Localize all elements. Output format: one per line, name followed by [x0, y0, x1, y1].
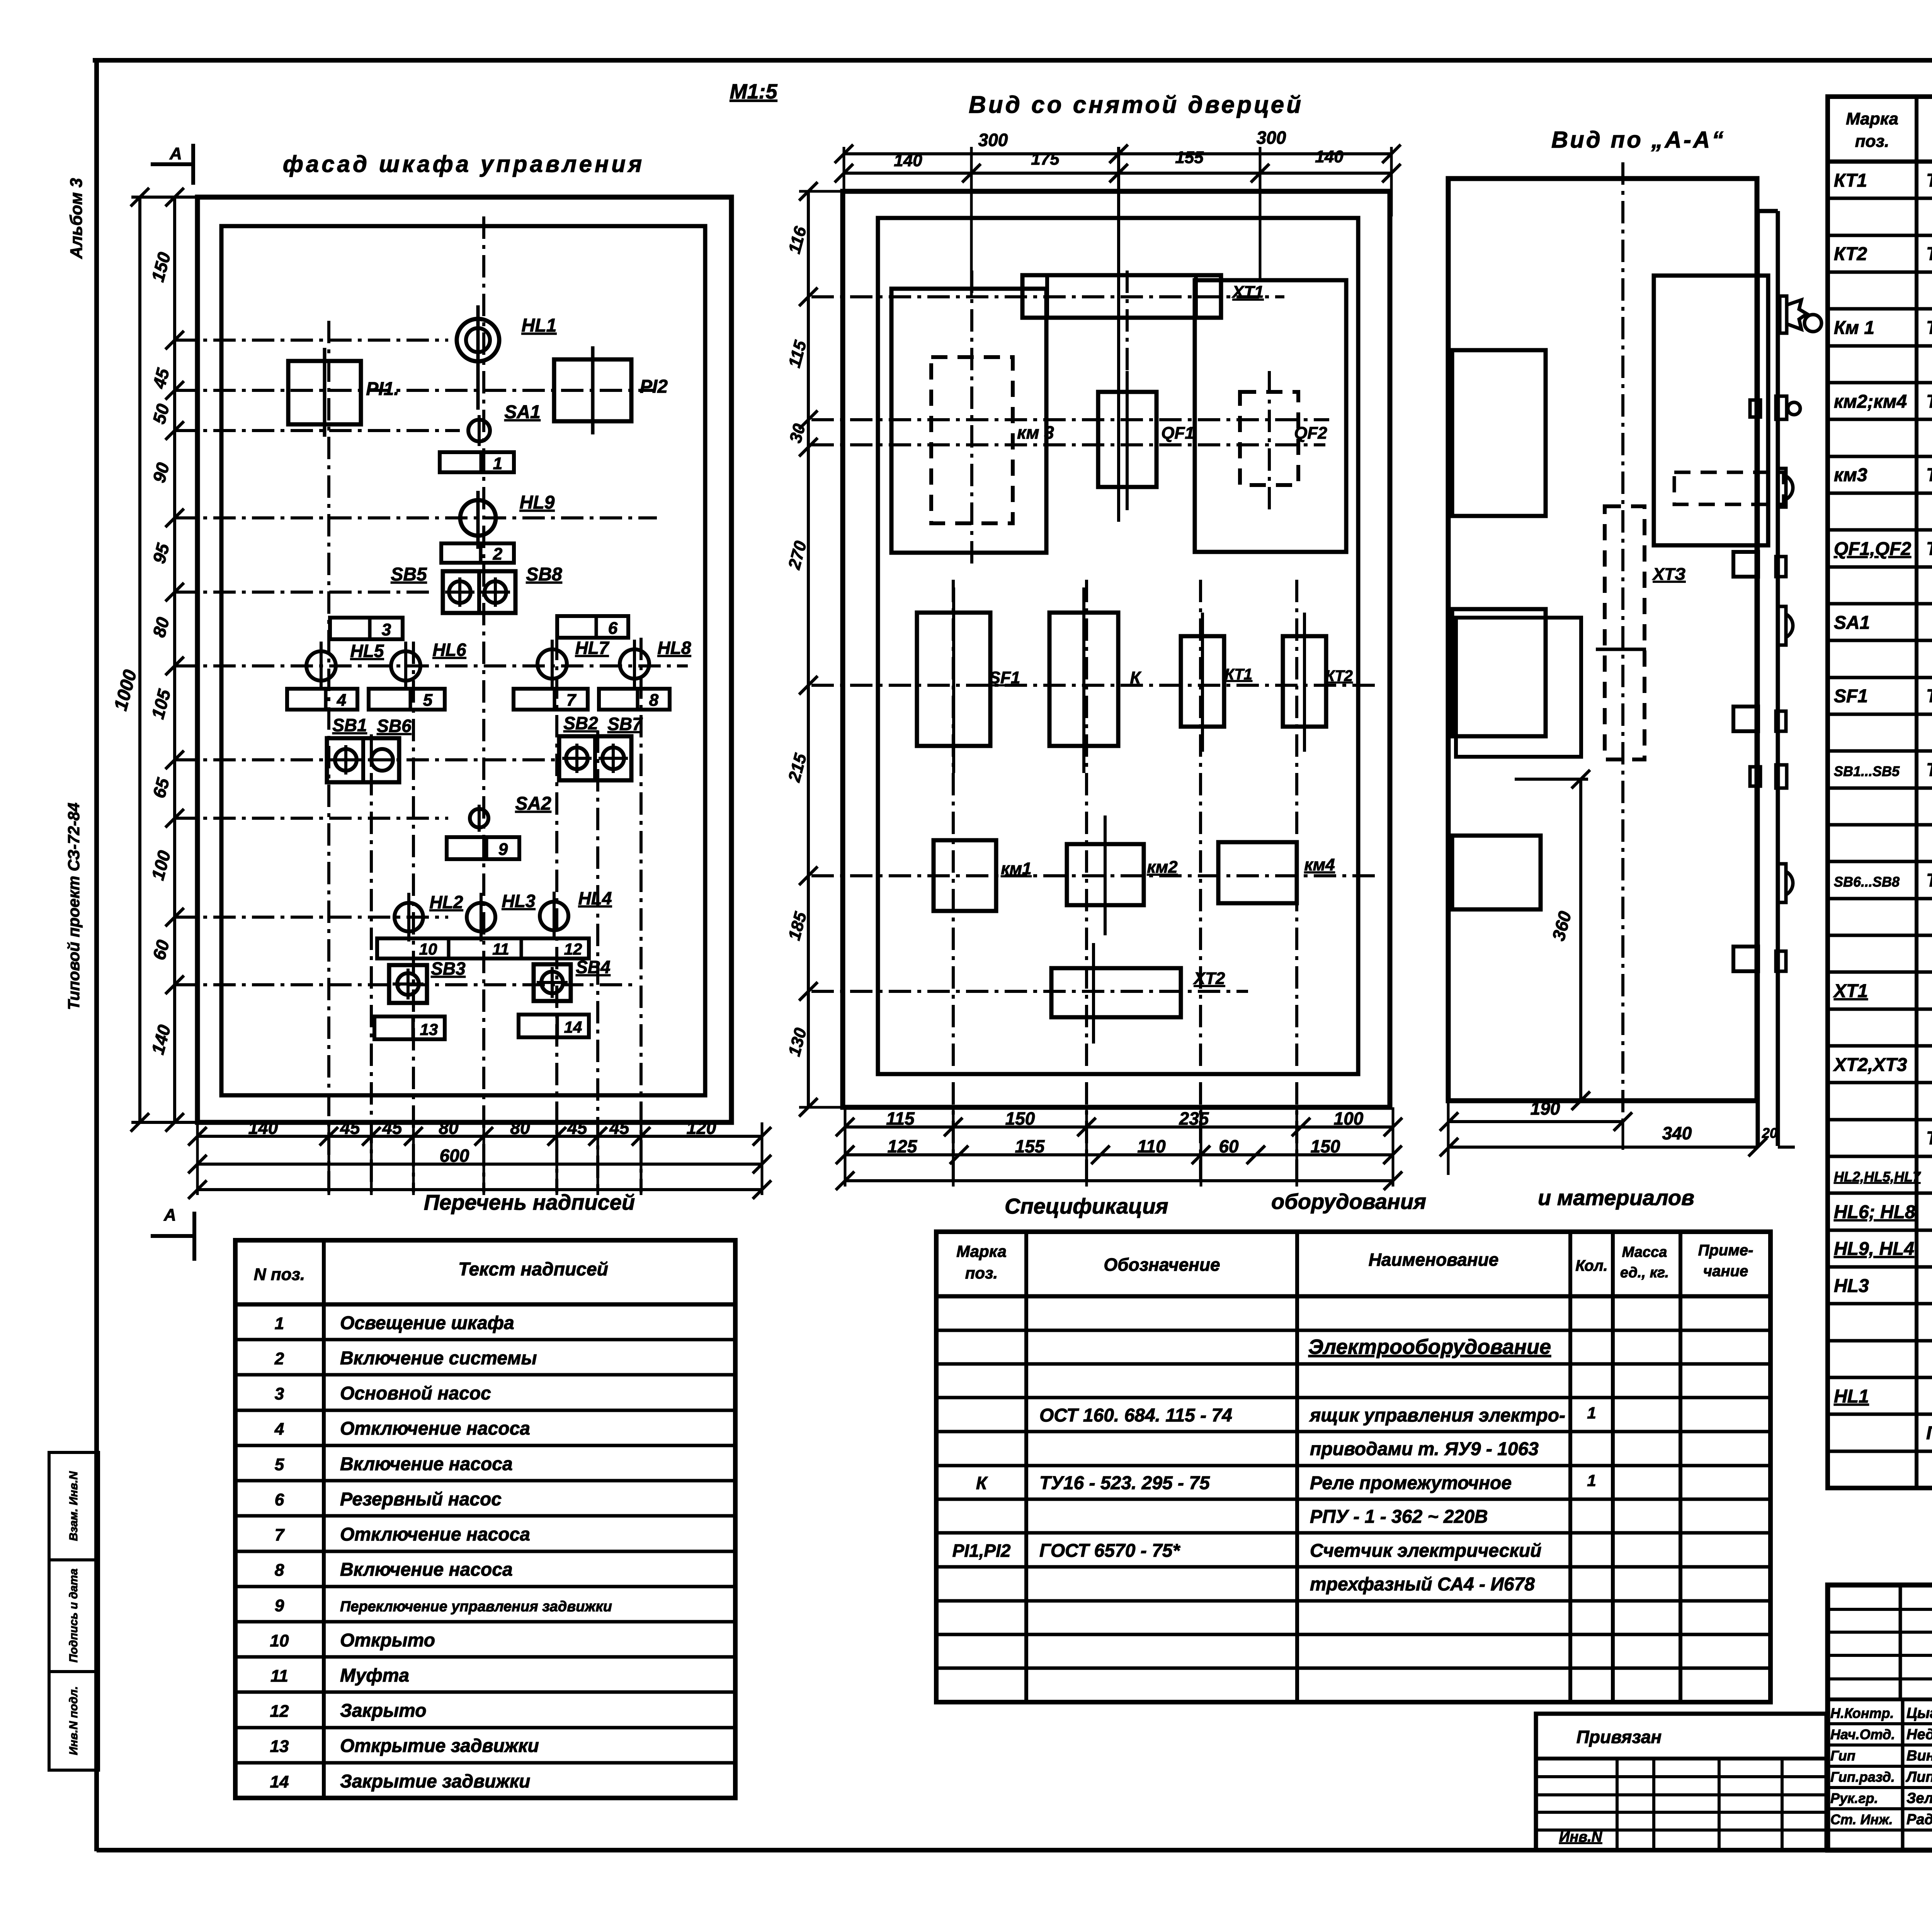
svg-text:Рук.гр.: Рук.гр. [1830, 1790, 1878, 1806]
svg-text:Км 1: Км 1 [1834, 318, 1874, 338]
svg-text:SA2: SA2 [515, 793, 551, 814]
middle center line row4 [811, 990, 1248, 993]
breaker SF1 [917, 613, 990, 746]
svg-text:Виноградов: Виноградов [1906, 1748, 1932, 1764]
contactor KM1 [934, 840, 996, 911]
nameplate 13 [374, 1016, 445, 1039]
svg-text:8: 8 [649, 691, 659, 710]
lamp HL2 [395, 903, 423, 931]
middle panel outline [878, 218, 1358, 1074]
svg-text:Переключение управления задвиж: Переключение управления задвижки [340, 1599, 612, 1615]
middle bottom dim row 3 [845, 1179, 1393, 1182]
svg-text:ТУ16 - 522. 139 - 78: ТУ16 - 522. 139 - 78 [1926, 686, 1932, 707]
buttons SB1 SB6 block [327, 738, 399, 782]
svg-text:А: А [163, 1205, 176, 1224]
title block [1828, 1585, 1932, 1850]
svg-text:14: 14 [564, 1018, 582, 1036]
svg-text:поз.: поз. [1855, 132, 1889, 151]
time relay KT2 [1283, 636, 1326, 727]
svg-text:155: 155 [1015, 1136, 1045, 1156]
contactor KM3 panel [891, 289, 1046, 553]
nameplate 3 [330, 618, 403, 639]
facade vertical dim chain [173, 197, 176, 1122]
svg-text:ХТЗ: ХТЗ [1652, 565, 1686, 584]
svg-text:ящик управления электро-: ящик управления электро- [1309, 1405, 1565, 1426]
svg-text:Типовой проект СЗ-72-84: Типовой проект СЗ-72-84 [65, 803, 83, 1010]
svg-text:7: 7 [566, 691, 577, 710]
svg-text:Включение насоса: Включение насоса [340, 1454, 513, 1474]
svg-text:ТУ16. - 526. 437 - 78: ТУ16. - 526. 437 - 78 [1926, 392, 1932, 412]
svg-text:155: 155 [1175, 148, 1204, 167]
svg-text:80: 80 [510, 1118, 530, 1138]
button SB3 [389, 965, 427, 1003]
lamp HL4 [540, 902, 568, 930]
svg-text:HL6; HL8: HL6; HL8 [1834, 1202, 1915, 1222]
svg-text:км4: км4 [1304, 855, 1335, 874]
svg-text:110: 110 [1137, 1136, 1166, 1156]
lamp HL7 [537, 649, 567, 679]
svg-text:150: 150 [1005, 1108, 1035, 1129]
svg-text:А: А [169, 144, 182, 163]
svg-text:ТУ16 - 523. 295 - 75: ТУ16 - 523. 295 - 75 [1039, 1473, 1210, 1493]
margin boxes inv/podp [49, 1452, 99, 1770]
terminal block XT2 [1051, 968, 1181, 1017]
svg-text:HL3: HL3 [502, 891, 536, 911]
A-A hinge D 2 [1778, 606, 1786, 645]
svg-text:КТ2: КТ2 [1325, 667, 1353, 684]
nameplate 2 [441, 543, 514, 563]
svg-text:Альбом 3: Альбом 3 [67, 178, 86, 259]
middle bottom dim row 1 [845, 1125, 1393, 1129]
svg-text:HL8: HL8 [658, 638, 691, 658]
svg-text:12: 12 [270, 1702, 289, 1721]
lamp HL8 [620, 649, 649, 679]
facade bottom dim row 1 [197, 1135, 762, 1138]
svg-text:HL3: HL3 [1834, 1276, 1869, 1296]
svg-text:4: 4 [337, 691, 346, 710]
svg-text:приводами т. ЯУ9 - 1063: приводами т. ЯУ9 - 1063 [1310, 1439, 1539, 1459]
svg-text:N поз.: N поз. [254, 1265, 305, 1284]
svg-text:150: 150 [1311, 1136, 1340, 1156]
svg-text:HL6: HL6 [433, 640, 466, 660]
facade horizontal center lines [175, 339, 448, 342]
A-A latch sq 3 [1733, 947, 1758, 971]
svg-text:ХТ1: ХТ1 [1231, 283, 1264, 301]
svg-text:2: 2 [493, 545, 503, 564]
svg-text:Привязан: Привязан [1577, 1727, 1662, 1747]
meter PI2 [554, 359, 631, 421]
svg-text:Гип.разд.: Гип.разд. [1830, 1769, 1895, 1785]
svg-text:9: 9 [498, 840, 508, 859]
svg-text:140: 140 [894, 151, 922, 170]
svg-text:1: 1 [1587, 1471, 1596, 1490]
nameplate 1 [440, 452, 514, 472]
nameplate 7 [514, 689, 588, 710]
svg-text:Счетчик электрический: Счетчик электрический [1310, 1541, 1541, 1561]
svg-text:SB5: SB5 [391, 564, 427, 585]
buttons SB2 SB7 block [559, 736, 631, 780]
svg-text:190: 190 [1531, 1098, 1560, 1119]
svg-text:SB8: SB8 [526, 564, 562, 585]
middle left dim chain [807, 191, 810, 1107]
svg-text:14: 14 [270, 1772, 289, 1791]
svg-text:140: 140 [1315, 147, 1344, 166]
time relay KT1 [1181, 636, 1224, 727]
svg-text:Основной насос: Основной насос [340, 1383, 491, 1404]
button SB4 [534, 964, 571, 1001]
nameplate strip 10 11 12 [377, 938, 589, 958]
svg-text:ТУ16 - 526.437 - 78: ТУ16 - 526.437 - 78 [1926, 318, 1932, 338]
A-A center line [1621, 162, 1624, 1121]
svg-text:Инв.N подл.: Инв.N подл. [67, 1686, 80, 1755]
svg-text:HL2,HL5,HL7: HL2,HL5,HL7 [1834, 1169, 1921, 1185]
svg-text:Открыто: Открыто [340, 1630, 435, 1651]
svg-text:6: 6 [275, 1490, 284, 1509]
svg-text:300: 300 [978, 130, 1008, 150]
svg-text:ХТ2,ХТ3: ХТ2,ХТ3 [1833, 1055, 1907, 1075]
frame top [93, 58, 1932, 63]
signature rows [1828, 1722, 1932, 1725]
svg-text:100: 100 [1334, 1108, 1364, 1129]
breaker QF1 [1098, 392, 1156, 487]
A-A dim 360 [1579, 779, 1582, 1101]
contactor KM2 [1067, 844, 1144, 905]
svg-text:Включение системы: Включение системы [340, 1348, 537, 1369]
svg-text:SF1: SF1 [1834, 686, 1868, 707]
svg-text:Обозначение: Обозначение [1104, 1255, 1220, 1275]
svg-text:5: 5 [275, 1455, 284, 1474]
middle top extension lines [843, 147, 845, 216]
svg-text:140: 140 [248, 1118, 278, 1138]
svg-text:3: 3 [382, 620, 391, 639]
svg-text:Недошивин: Недошивин [1906, 1726, 1932, 1743]
svg-text:3: 3 [275, 1384, 284, 1403]
svg-text:Цыганова: Цыганова [1906, 1705, 1932, 1721]
svg-text:10: 10 [419, 940, 437, 958]
svg-text:Зельманов: Зельманов [1906, 1790, 1932, 1806]
svg-text:175: 175 [1031, 150, 1060, 169]
lamp HL5 [306, 651, 336, 681]
svg-text:SB4: SB4 [576, 957, 610, 977]
svg-text:Отключение насоса: Отключение насоса [340, 1418, 530, 1439]
svg-text:1: 1 [493, 454, 502, 473]
svg-text:45: 45 [567, 1118, 588, 1138]
svg-text:HL7: HL7 [575, 638, 610, 658]
svg-text:SB6...SB8: SB6...SB8 [1834, 874, 1900, 890]
facade vertical dim 1000 [138, 197, 141, 1122]
svg-text:300: 300 [1257, 128, 1286, 148]
svg-text:оборудования: оборудования [1271, 1189, 1426, 1214]
middle center line 30 upper [811, 418, 1329, 421]
linked project sub-table (Привязан) [1536, 1714, 1827, 1850]
svg-text:Текст надписей: Текст надписей [458, 1259, 608, 1280]
svg-text:ОСТ 160. 684. 115 - 74: ОСТ 160. 684. 115 - 74 [1039, 1405, 1232, 1426]
A-A dashed cable duct XT3 [1605, 506, 1645, 759]
nameplate 4 [287, 689, 357, 710]
svg-text:км2;км4: км2;км4 [1834, 392, 1907, 412]
svg-text:QF1,QF2: QF1,QF2 [1834, 539, 1911, 559]
nameplate 6 [557, 616, 628, 638]
nameplate 14 [519, 1015, 589, 1037]
A-A inner apparatus rect [1654, 276, 1768, 545]
svg-text:Радионова: Радионова [1906, 1811, 1932, 1828]
svg-text:QF1: QF1 [1161, 424, 1194, 443]
svg-text:КТ1: КТ1 [1225, 666, 1252, 683]
svg-text:HL9, HL4: HL9, HL4 [1834, 1239, 1914, 1259]
svg-text:РПУ - 1 - 362 ~ 220В: РПУ - 1 - 362 ~ 220В [1310, 1507, 1488, 1527]
svg-text:11: 11 [492, 940, 509, 958]
svg-text:ТУ16.- 526. 437- 78: ТУ16.- 526. 437- 78 [1926, 465, 1932, 485]
svg-text:Марка: Марка [956, 1242, 1007, 1260]
svg-text:КТ1: КТ1 [1834, 170, 1867, 191]
A-A dim 190 [1449, 1120, 1623, 1123]
svg-text:Наименование: Наименование [1369, 1250, 1499, 1270]
A-A dim 340 [1449, 1146, 1758, 1149]
facade vertical center lines [327, 321, 330, 1192]
svg-text:8: 8 [275, 1561, 284, 1580]
svg-text:чание: чание [1703, 1263, 1748, 1280]
A-A left shelf 1 [1452, 350, 1546, 516]
svg-text:11: 11 [270, 1667, 288, 1685]
svg-text:Марка: Марка [1846, 109, 1898, 128]
svg-text:HL1: HL1 [1834, 1386, 1869, 1407]
middle center line row2 [811, 684, 1376, 687]
svg-text:км2: км2 [1147, 858, 1178, 877]
svg-text:6: 6 [608, 619, 618, 638]
svg-text:поз.: поз. [965, 1264, 998, 1282]
facade bottom dim row 2 (600) [197, 1163, 762, 1166]
nameplate 8 [599, 689, 670, 710]
middle top dim 300+300 [844, 152, 1391, 155]
svg-text:Вид со снятой дверцей: Вид со снятой дверцей [969, 92, 1303, 118]
A-A latch small knob [1750, 400, 1760, 417]
A-A door strip [1756, 211, 1760, 1146]
svg-text:и материалов: и материалов [1538, 1185, 1694, 1210]
svg-text:ГОСТ 6323 - 79*: ГОСТ 6323 - 79* [1926, 1423, 1932, 1444]
svg-text:HL4: HL4 [578, 888, 612, 908]
right panel section [1195, 280, 1346, 552]
svg-text:Н.Контр.: Н.Контр. [1830, 1705, 1894, 1721]
svg-text:км 3: км 3 [1017, 422, 1054, 443]
A-A door handle [1780, 296, 1787, 333]
svg-text:Инв.N: Инв.N [1559, 1829, 1603, 1845]
svg-text:трехфазный СА4 - И678: трехфазный СА4 - И678 [1310, 1574, 1535, 1595]
switch SA1 [468, 420, 490, 441]
svg-text:SB2: SB2 [563, 713, 598, 733]
svg-text:340: 340 [1662, 1123, 1692, 1143]
A-A left shelf 2 [1452, 609, 1546, 736]
svg-text:Ст. Инж.: Ст. Инж. [1830, 1811, 1893, 1827]
svg-text:PI2: PI2 [640, 376, 668, 397]
svg-text:Кол.: Кол. [1575, 1257, 1608, 1274]
facade bottom extension lines [196, 1122, 199, 1195]
svg-text:SА1: SА1 [1834, 613, 1870, 633]
switch SA2 [470, 809, 488, 827]
svg-text:М1:5: М1:5 [730, 80, 777, 103]
svg-text:45: 45 [340, 1118, 361, 1138]
svg-text:ед., кг.: ед., кг. [1620, 1265, 1669, 1281]
middle bottom dim row 2 [845, 1153, 1393, 1156]
svg-text:45: 45 [382, 1118, 403, 1138]
svg-text:Отключение насоса: Отключение насоса [340, 1524, 530, 1545]
svg-text:SB1: SB1 [332, 715, 367, 735]
svg-text:Электрооборудование: Электрооборудование [1308, 1335, 1551, 1359]
facade cabinet outline [197, 197, 731, 1122]
relay K [1049, 613, 1118, 746]
svg-text:PI1,PI2: PI1,PI2 [952, 1541, 1011, 1561]
contactor KM4 [1218, 842, 1297, 903]
svg-text:ТУ16 - 526. 407 - 76.: ТУ16 - 526. 407 - 76. [1926, 760, 1932, 780]
svg-text:Приме-: Приме- [1698, 1242, 1753, 1259]
svg-text:115: 115 [886, 1108, 915, 1129]
svg-text:Взам. Инв.N: Взам. Инв.N [67, 1471, 80, 1541]
svg-text:Липинкин: Липинкин [1905, 1769, 1932, 1785]
nameplate 5 [369, 689, 445, 710]
svg-text:Открытие задвижки: Открытие задвижки [340, 1736, 539, 1756]
svg-text:13: 13 [420, 1020, 438, 1039]
A-A hinge D 1 [1778, 468, 1786, 507]
lamp HL9 [460, 500, 496, 536]
svg-text:4: 4 [274, 1420, 284, 1439]
middle cabinet outline [843, 191, 1390, 1107]
svg-text:SB6: SB6 [377, 716, 412, 736]
svg-text:Подпись и дата: Подпись и дата [67, 1568, 80, 1662]
svg-text:HL9: HL9 [520, 492, 555, 513]
svg-text:Спецификация: Спецификация [1005, 1194, 1168, 1218]
A-A latch small 2 [1750, 767, 1760, 786]
svg-text:2: 2 [274, 1349, 284, 1368]
svg-text:Перечень надписей: Перечень надписей [424, 1190, 635, 1214]
svg-text:PI1.: PI1. [366, 379, 399, 399]
lamp HL6 [391, 651, 420, 681]
svg-text:Нач.Отд.: Нач.Отд. [1830, 1726, 1895, 1742]
svg-text:HL1: HL1 [522, 315, 557, 336]
svg-text:Масса: Масса [1622, 1244, 1667, 1260]
svg-text:К: К [976, 1473, 988, 1493]
svg-text:ХТ2: ХТ2 [1193, 969, 1225, 988]
svg-text:ТУ16 -. 526. 407 - 76: ТУ16 -. 526. 407 - 76 [1926, 870, 1932, 891]
A-A left shelf 3 [1452, 836, 1541, 909]
svg-text:10: 10 [270, 1631, 289, 1650]
middle top dim 140 175 155 140 [844, 172, 1391, 175]
svg-text:1: 1 [275, 1314, 284, 1333]
lamp HL1 [457, 319, 499, 361]
svg-text:13: 13 [270, 1737, 289, 1756]
A-A body outline [1448, 179, 1757, 1101]
A-A latch sq 1 [1733, 552, 1758, 577]
svg-text:QF2: QF2 [1294, 424, 1327, 443]
svg-text:5: 5 [423, 691, 433, 710]
frame left [94, 60, 99, 1851]
svg-text:SB1...SB5: SB1...SB5 [1834, 763, 1900, 779]
meter PI1 [288, 361, 361, 424]
facade door outline [221, 226, 705, 1095]
middle center line 30 lower [811, 443, 1325, 446]
svg-text:Реле промежуточное: Реле промежуточное [1310, 1473, 1512, 1493]
A-A latch sq 2 [1733, 707, 1758, 731]
frame bottom [97, 1848, 1932, 1852]
svg-text:ТУ16 - 522. 139 - 78: ТУ16 - 522. 139 - 78 [1926, 539, 1932, 559]
svg-text:12: 12 [564, 940, 582, 958]
svg-text:ГОСТ 6570 - 75*: ГОСТ 6570 - 75* [1039, 1541, 1180, 1561]
svg-text:125: 125 [888, 1136, 918, 1156]
breaker QF2 (dashed) [1240, 392, 1298, 485]
A-A hinge D 3 [1778, 864, 1786, 902]
svg-text:120: 120 [687, 1118, 716, 1138]
svg-text:HL2: HL2 [430, 892, 463, 912]
svg-text:Вид по „А-А“: Вид по „А-А“ [1551, 127, 1725, 153]
svg-text:Резервный насос: Резервный насос [340, 1489, 502, 1510]
svg-text:ХТ1: ХТ1 [1833, 981, 1868, 1001]
svg-text:Закрыто: Закрыто [340, 1701, 427, 1721]
nameplate 9 [447, 837, 519, 859]
svg-text:9: 9 [275, 1596, 284, 1615]
middle center line row3 [811, 874, 1376, 877]
svg-text:45: 45 [609, 1118, 630, 1138]
svg-text:SB3: SB3 [431, 958, 466, 979]
svg-text:КТ2: КТ2 [1834, 244, 1867, 264]
lamp HL3 [467, 903, 495, 931]
svg-text:Муфта: Муфта [340, 1665, 409, 1686]
buttons SB5 SB8 block [443, 571, 515, 613]
svg-text:600: 600 [440, 1146, 469, 1166]
svg-text:ТУ 16 - 523. 472 - 74: ТУ 16 - 523. 472 - 74 [1926, 170, 1932, 191]
A-A dashed insert [1674, 472, 1784, 504]
svg-text:Гип: Гип [1830, 1748, 1855, 1764]
svg-text:фасад шкафа управления: фасад шкафа управления [283, 151, 645, 177]
svg-text:80: 80 [439, 1118, 459, 1138]
svg-text:235: 235 [1179, 1108, 1209, 1129]
facade bottom dim row 3 [197, 1188, 762, 1191]
svg-text:Включение насоса: Включение насоса [340, 1559, 513, 1580]
middle bottom extension lines [844, 1107, 847, 1187]
svg-text:км3: км3 [1834, 465, 1867, 485]
svg-text:HL5: HL5 [350, 641, 384, 661]
svg-text:Освещение шкафа: Освещение шкафа [340, 1313, 514, 1333]
svg-text:SA1: SA1 [504, 402, 540, 422]
svg-text:60: 60 [1219, 1136, 1239, 1156]
svg-text:1: 1 [1587, 1404, 1596, 1422]
svg-text:7: 7 [275, 1525, 285, 1544]
revision grid [1828, 1608, 1932, 1611]
svg-text:ТУ16. - 523. 472 .- 74: ТУ16. - 523. 472 .- 74 [1926, 244, 1932, 264]
svg-text:Закрытие задвижки: Закрытие задвижки [340, 1771, 530, 1792]
svg-text:20: 20 [1762, 1125, 1777, 1141]
terminal block XT1 [1022, 275, 1221, 318]
svg-text:SB7: SB7 [607, 714, 643, 734]
svg-text:ТУ16 - 535. 426 - 70: ТУ16 - 535. 426 - 70 [1926, 1128, 1932, 1149]
middle vertical center lines [952, 580, 955, 1185]
